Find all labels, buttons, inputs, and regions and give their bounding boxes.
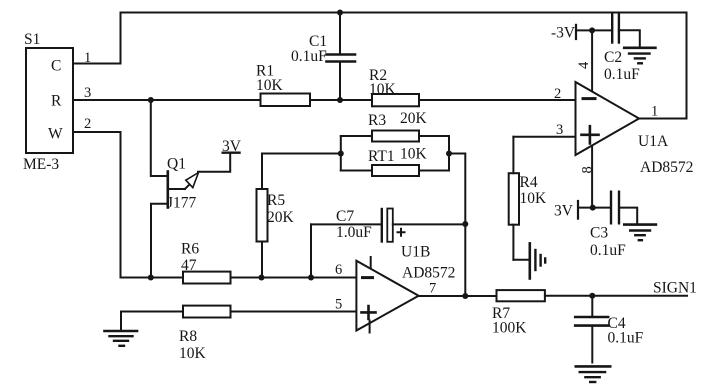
- net label SIGN1: [653, 280, 697, 297]
- svg-text:ME-3: ME-3: [23, 156, 59, 173]
- svg-text:10K: 10K: [520, 190, 548, 207]
- node junction -3V / pin4: [589, 27, 595, 33]
- svg-text:8: 8: [580, 166, 596, 173]
- svg-text:10K: 10K: [179, 345, 207, 362]
- svg-text:10K: 10K: [400, 146, 428, 163]
- svg-text:3: 3: [84, 85, 91, 101]
- wire U1B output row: [419, 295, 687, 297]
- svg-text:3V: 3V: [222, 138, 242, 155]
- svg-text:5: 5: [335, 297, 342, 313]
- wire U1A pin8 stub: [580, 146, 596, 208]
- svg-text:0.1uF: 0.1uF: [608, 330, 644, 347]
- svg-text:1.0uF: 1.0uF: [336, 224, 372, 241]
- ground (C2): [624, 48, 655, 64]
- wire C7 branch down to pin6 row: [310, 224, 312, 277]
- node junction pin6 row / C7 branch: [308, 275, 314, 281]
- svg-text:1: 1: [651, 104, 658, 120]
- node junction output / feedback column: [462, 293, 468, 299]
- svg-text:3V: 3V: [554, 203, 574, 220]
- svg-text:Q1: Q1: [167, 156, 186, 173]
- ground (C3): [624, 225, 656, 241]
- svg-text:4: 4: [576, 61, 592, 69]
- wire U1A pin3 row: [513, 122, 575, 138]
- resistor R2: [369, 67, 419, 106]
- capacitor C1: [291, 13, 355, 101]
- svg-text:2: 2: [554, 86, 561, 102]
- capacitor C4: [575, 296, 643, 363]
- svg-text:AD8572: AD8572: [640, 159, 693, 176]
- node junction R row / C1: [337, 97, 343, 103]
- svg-text:AD8572: AD8572: [402, 265, 455, 282]
- power 3V (Q1 drain): [222, 138, 242, 155]
- svg-text:0.1uF: 0.1uF: [604, 66, 640, 83]
- svg-text:C: C: [51, 58, 61, 75]
- svg-text:R8: R8: [179, 328, 197, 345]
- wire R8 row (to U1B pin5): [121, 311, 356, 313]
- svg-text:7: 7: [429, 281, 436, 297]
- wire pin 1 stub (S1 C to top rail): [73, 50, 121, 66]
- thermistor RT1: [341, 136, 449, 176]
- wire U1A output pin1: [639, 104, 687, 120]
- resistor R8: [179, 306, 231, 362]
- svg-text:10K: 10K: [256, 77, 284, 94]
- wire U1A pin4 stub: [576, 30, 592, 90]
- svg-text:RT1: RT1: [368, 148, 395, 165]
- resistor R3: [341, 110, 449, 142]
- svg-text:10K: 10K: [369, 81, 397, 98]
- svg-text:0.1uF: 0.1uF: [590, 242, 626, 259]
- svg-text:0.1uF: 0.1uF: [291, 48, 327, 65]
- svg-text:20K: 20K: [400, 110, 428, 127]
- node junction C7 right / feedback column: [462, 221, 468, 227]
- resistor R7: [492, 290, 545, 336]
- capacitor C3: [590, 192, 637, 259]
- svg-text:20K: 20K: [267, 209, 295, 226]
- svg-text:R5: R5: [267, 192, 285, 209]
- svg-text:R4: R4: [520, 174, 538, 191]
- connector S1: [23, 31, 73, 173]
- node junction R row / Q1 branch: [148, 97, 154, 103]
- svg-text:U1A: U1A: [638, 133, 669, 150]
- wire RT1 right node to feedback column: [449, 154, 465, 297]
- wire top feedback rail: [121, 13, 687, 119]
- ground (C4): [576, 366, 610, 382]
- svg-text:47: 47: [181, 257, 197, 274]
- node junction 3V / pin8: [590, 205, 596, 211]
- power -3V (U1A pin4): [551, 25, 612, 42]
- svg-text:6: 6: [335, 262, 342, 278]
- ground (R8 left): [105, 312, 138, 346]
- svg-text:C3: C3: [590, 225, 608, 242]
- ground (R4, rotated right): [513, 243, 545, 278]
- wire pin 3 row (S1 R to U1A pin2): [73, 85, 576, 101]
- svg-text:J177: J177: [167, 195, 197, 212]
- wire R5 top to RT1 left node: [262, 153, 341, 155]
- power 3V (U1A pin8): [554, 201, 611, 220]
- svg-text:U1B: U1B: [401, 244, 430, 261]
- svg-text:C7: C7: [336, 208, 354, 225]
- svg-text:W: W: [48, 126, 63, 143]
- node junction R6 row / Q1: [148, 275, 154, 281]
- svg-text:1: 1: [84, 50, 91, 66]
- node RT1 left: [338, 151, 344, 157]
- resistor R1: [256, 63, 310, 107]
- svg-text:SIGN1: SIGN1: [653, 280, 697, 297]
- svg-text:-3V: -3V: [551, 25, 576, 42]
- svg-text:R3: R3: [368, 112, 386, 129]
- svg-text:2: 2: [84, 116, 91, 132]
- svg-text:R6: R6: [181, 241, 199, 258]
- svg-text:S1: S1: [24, 31, 40, 48]
- resistor R4: [509, 137, 547, 260]
- svg-text:R: R: [51, 93, 62, 110]
- resistor R6: [181, 241, 231, 284]
- op-amp U1A: [554, 82, 693, 176]
- node junction output / C4: [589, 293, 595, 299]
- node junction top rail / C1: [337, 10, 343, 16]
- resistor R5: [257, 154, 295, 278]
- node RT1 right: [446, 151, 452, 157]
- wire pin 2 stub (S1 W down to R6 row): [73, 116, 121, 278]
- svg-text:3: 3: [556, 122, 563, 138]
- op-amp U1B: [335, 244, 455, 333]
- svg-text:C2: C2: [604, 49, 622, 66]
- wire R6 row (W branch to U1B pin6): [121, 277, 357, 279]
- capacitor C2: [604, 13, 640, 83]
- node junction R6 row / R5: [259, 275, 265, 281]
- transistor Q1 (J177): [151, 100, 230, 278]
- capacitor C7: [311, 208, 465, 242]
- svg-text:100K: 100K: [492, 320, 527, 337]
